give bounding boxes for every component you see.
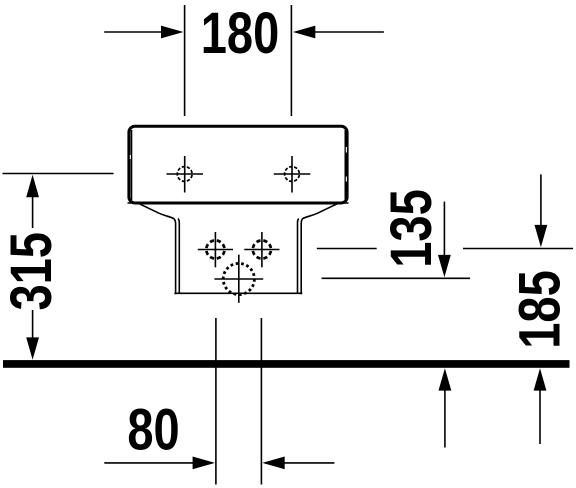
fixing hole right <box>274 156 311 193</box>
dimension 315 lower line and arrow <box>26 310 39 360</box>
svg-text:180: 180 <box>201 1 279 66</box>
body top section right edge band <box>345 130 347 200</box>
body bottom edge <box>174 292 302 294</box>
dimension 185 upper line and arrow <box>535 174 548 247</box>
dimension 315 extension line <box>3 173 114 175</box>
supply hole right <box>244 232 279 267</box>
body left inner wall line <box>178 219 179 294</box>
dimension 185 extension line right (supply level) <box>463 248 573 250</box>
dimension 180 right extension line <box>290 5 292 116</box>
fixing hole left <box>167 156 204 193</box>
dimension 315 upper line and arrow <box>26 175 39 228</box>
dimension 80 right arrow <box>262 457 334 470</box>
supply hole left <box>198 232 233 267</box>
dimension 180 right arrow <box>293 26 384 39</box>
body right taper outline <box>301 203 338 294</box>
body left taper outline <box>138 203 176 294</box>
body top section left edge band <box>130 130 132 200</box>
body top section <box>129 126 347 203</box>
drain hole <box>214 255 263 303</box>
dimension 185 lower line and arrow <box>534 368 547 444</box>
dimension 180 left extension line <box>184 5 186 116</box>
svg-text:80: 80 <box>127 398 179 463</box>
svg-text:185: 185 <box>507 270 572 348</box>
dimension 80 left extension line <box>215 318 217 485</box>
dimension 80 right extension line <box>260 318 262 485</box>
svg-text:315: 315 <box>0 232 64 310</box>
dimension 80 left arrow <box>104 457 215 470</box>
dimension 135 upper line and arrow <box>438 202 451 278</box>
floor line <box>3 360 570 368</box>
dimension 135 extension line (drain level) <box>322 277 470 279</box>
svg-text:135: 135 <box>379 189 444 267</box>
body right inner wall line <box>298 219 299 294</box>
body top section bottom edge <box>128 202 349 204</box>
dimension 185 extension line left (supply level) <box>317 248 377 250</box>
dimension 180 left arrow <box>104 26 183 39</box>
dimension 135 lower line and arrow <box>439 368 452 447</box>
